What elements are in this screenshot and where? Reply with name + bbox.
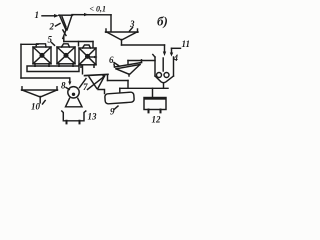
svg-text:9: 9 bbox=[110, 107, 115, 117]
svg-text:< 0,1: < 0,1 bbox=[90, 5, 107, 14]
svg-text:1: 1 bbox=[35, 10, 40, 20]
svg-text:8: 8 bbox=[61, 81, 66, 91]
svg-text:6: 6 bbox=[109, 55, 114, 65]
svg-text:7: 7 bbox=[83, 82, 88, 92]
svg-text:2: 2 bbox=[49, 22, 55, 32]
svg-text:4: 4 bbox=[173, 53, 179, 63]
svg-text:3: 3 bbox=[129, 19, 135, 29]
svg-text:11: 11 bbox=[182, 39, 191, 49]
svg-text:13: 13 bbox=[88, 112, 98, 122]
svg-text:б): б) bbox=[157, 14, 168, 29]
svg-text:5: 5 bbox=[48, 35, 53, 45]
svg-text:10: 10 bbox=[31, 102, 41, 112]
svg-text:12: 12 bbox=[152, 115, 162, 125]
